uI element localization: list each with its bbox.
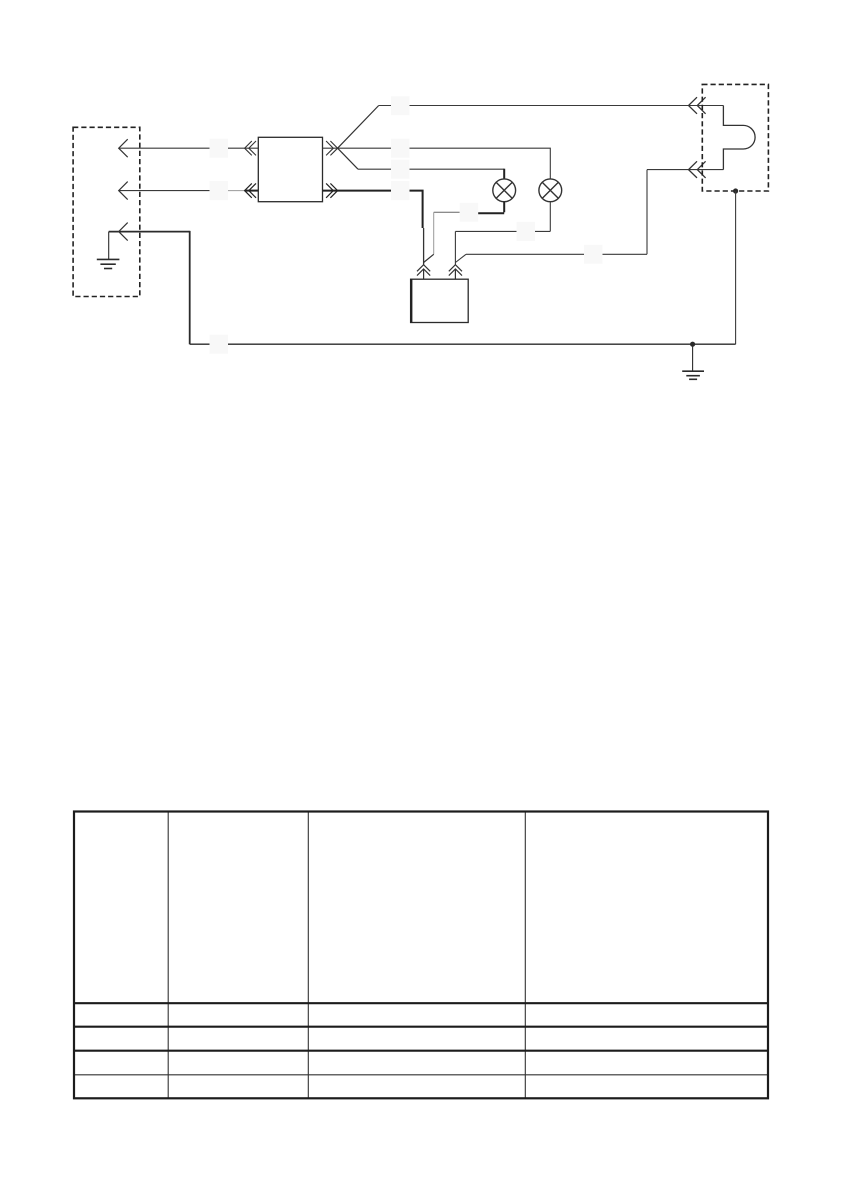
lamp L1 [493,179,516,202]
wire label W8 [460,203,479,222]
wire lamp L2 bottom [455,202,550,265]
wire lamp L1 bottom [424,202,505,263]
pin chevron relay left top [245,141,256,155]
wire top feed to connector J2 [379,105,724,107]
wire down to unit pin1 [423,228,425,265]
arrow pin2 [119,182,128,200]
connector J2 right dashed box [702,84,768,191]
pin chevron unit pin1 [417,265,430,276]
relay U1 box [258,137,322,201]
pin chevron relay right top [326,141,338,155]
wire diagonal up to top feed [338,106,379,149]
wire diagonal down to lamp L1 feed [338,148,358,169]
arrow pin3 [119,223,128,241]
wire relay out bottom thick [323,190,424,228]
wire label W4 [391,96,410,115]
parts table [74,812,768,1099]
wire unit pin2 to connector J2 low [455,170,723,263]
wire relay out mid to lamp L2 top [323,148,551,179]
wire unit pin stubs [424,270,456,280]
wire label W1 [210,139,229,158]
ground G2 [682,344,704,379]
wire pin3 ground feed [109,231,190,233]
wire label W5 [391,139,410,158]
lamp L2 [539,179,562,202]
wire pin2 to relay [119,190,259,192]
wire ground bus bottom [190,231,736,344]
node B junction dot [690,342,695,347]
wire J2 to bottom bus [735,191,737,344]
pin chevron connector J2 top [689,97,706,114]
pin chevron unit pin2 [449,265,462,276]
plug element inside J2 [723,106,755,170]
node A junction dot [733,188,738,193]
arrow pin1 [119,139,128,157]
pin chevron connector J2 bottom [689,161,706,178]
connector J1 left dashed box [73,127,140,296]
wire pin1 to relay [119,147,259,149]
wire lamp L1 top feed [358,169,504,179]
ground G1 [97,232,120,269]
wire label W9 [517,222,536,241]
wire label W2 [210,181,229,200]
wire label W10 [584,245,603,264]
pin chevron relay right bottom [326,183,338,197]
pin chevron relay left bottom [245,183,256,197]
wire label W7 [391,181,410,200]
wire label W3 [210,335,229,354]
wire label W6 [391,160,410,179]
unit U2 box [411,279,469,322]
